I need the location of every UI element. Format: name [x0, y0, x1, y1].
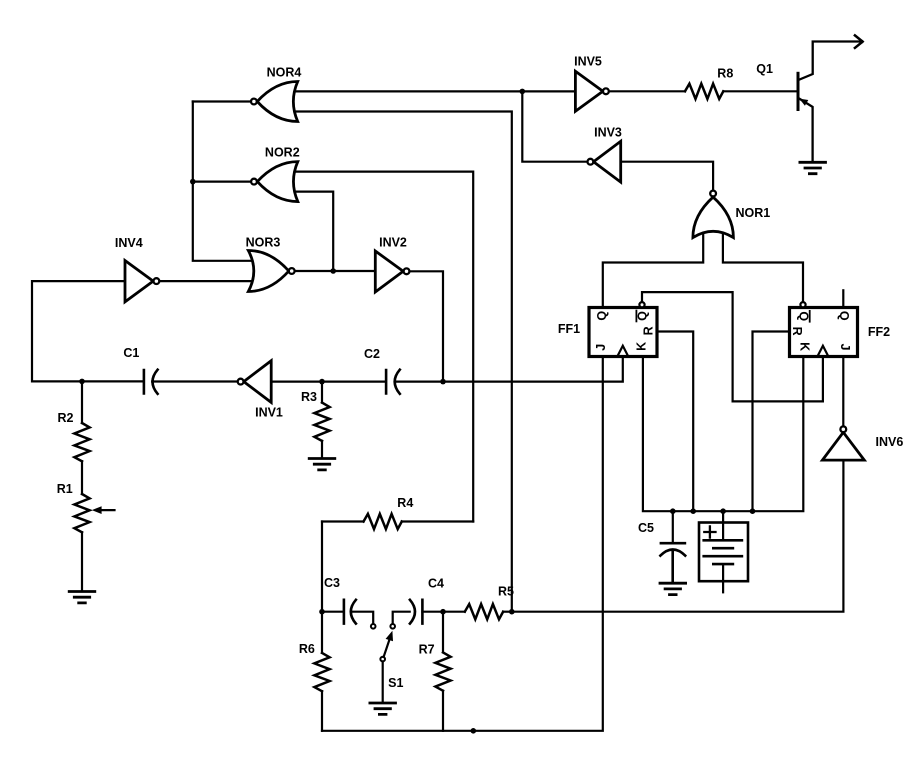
- junction node bus FF1 R: [690, 508, 696, 514]
- inverter INV6: [822, 432, 864, 460]
- wire INV4 output to NOR3 input 2: [159, 280, 252, 282]
- wire INV3 output up to node B: [522, 91, 587, 161]
- wire INV1 to C2: [271, 381, 385, 383]
- label INV6: [876, 435, 904, 449]
- junction node C4 right: [440, 609, 446, 615]
- junction node bus FF2 R: [750, 508, 756, 514]
- wire R1 to ground: [81, 532, 83, 591]
- wire NOR2 output: [193, 181, 251, 183]
- INV2 output bubble: [404, 268, 410, 274]
- NOR gate NOR3: [248, 251, 288, 292]
- svg-text:INV2: INV2: [379, 236, 407, 250]
- FF2 pin label K: [797, 342, 811, 351]
- label NOR4: [267, 66, 302, 80]
- inverter INV5: [575, 71, 603, 111]
- switch S1 arm with arrow: [384, 631, 393, 657]
- wire C5 feed: [672, 511, 674, 542]
- potentiometer R1 wiper arrow: [92, 506, 115, 514]
- resistor R2: [74, 423, 89, 461]
- junction node bottom rail: [471, 728, 477, 734]
- wire C1 to INV1: [152, 380, 238, 382]
- wire R5 right stub: [503, 611, 512, 613]
- wire R6 to bottom rail: [321, 691, 323, 731]
- label NOR3: [246, 236, 281, 250]
- wire FF2 R to bus: [753, 332, 790, 512]
- label C3: [324, 576, 340, 590]
- svg-text:Q: Q: [837, 311, 851, 321]
- FF2 pin label R: [790, 327, 804, 336]
- capacitor C2: [386, 370, 400, 394]
- label NOR1: [736, 206, 771, 220]
- wire FF2 J to INV6 output: [842, 357, 844, 427]
- wire C3 node down to R6: [321, 612, 323, 653]
- wire INV5 output to R8: [609, 90, 685, 92]
- svg-text:R3: R3: [301, 390, 317, 404]
- svg-text:C4: C4: [428, 577, 444, 591]
- svg-text:R4: R4: [397, 496, 413, 510]
- label R3: [301, 390, 317, 404]
- label C5: [638, 521, 654, 535]
- junction node NOR2 output / left rail: [190, 179, 196, 185]
- FF2 pin label Qbar: [796, 311, 810, 322]
- junction node R3 top: [319, 379, 325, 385]
- NOR1 output bubble: [710, 191, 716, 197]
- NOR4 output bubble: [251, 99, 257, 105]
- switch S1 pole contact: [380, 657, 385, 662]
- wire left rail to NOR3 input 1: [193, 102, 253, 261]
- NOR3 output bubble: [289, 268, 295, 274]
- NOR gate NOR4: [257, 82, 298, 122]
- battery bottom stub: [722, 564, 724, 592]
- wire FF1 K / reset bus / FF2 K: [643, 357, 803, 512]
- wire INV4 input left loop: [32, 281, 143, 381]
- label R1: [57, 482, 73, 496]
- svg-text:C3: C3: [324, 576, 340, 590]
- svg-text:C1: C1: [123, 346, 139, 360]
- switch S1 throw contact 2: [390, 624, 395, 629]
- resistor R1 potentiometer: [74, 494, 89, 532]
- battery plus sign: [704, 526, 715, 537]
- junction node bus battery: [720, 508, 726, 514]
- svg-text:R7: R7: [419, 642, 435, 656]
- label C4: [428, 577, 444, 591]
- svg-text:Q: Q: [635, 311, 649, 321]
- svg-text:FF1: FF1: [558, 322, 580, 336]
- capacitor C4: [410, 600, 423, 624]
- flip-flop FF2 box: [790, 308, 858, 357]
- wire R7 to bottom rail: [442, 691, 444, 731]
- label C2: [364, 347, 380, 361]
- svg-text:Q1: Q1: [756, 62, 773, 76]
- label C1: [123, 346, 139, 360]
- FF1 clock triangle: [617, 346, 628, 357]
- svg-text:K: K: [635, 342, 649, 351]
- FF1 pin label Q: [595, 311, 609, 321]
- wire R2 node down: [81, 381, 83, 423]
- label INV2: [379, 236, 407, 250]
- ground of C5: [660, 583, 686, 594]
- resistor R5: [465, 604, 503, 619]
- wire NOR2 input 1 to R4 right end: [294, 172, 474, 522]
- junction node C2 right: [440, 379, 446, 385]
- wire C3 to switch throw 1: [352, 612, 373, 624]
- FF1 Qbar pin bubble: [639, 302, 644, 307]
- capacitor C3: [344, 600, 356, 624]
- flip-flop FF1 box: [589, 308, 657, 357]
- capacitor C1: [144, 370, 158, 394]
- INV3 output bubble: [588, 159, 594, 165]
- wire NOR3 output to INV2: [295, 270, 376, 272]
- label R4: [397, 496, 413, 510]
- junction node bus C5: [670, 508, 676, 514]
- svg-text:FF2: FF2: [868, 325, 890, 339]
- wire R3 node down: [321, 382, 323, 403]
- ground of R3: [309, 459, 335, 470]
- label FF2: [868, 325, 890, 339]
- inverter INV1: [244, 361, 272, 403]
- svg-text:R: R: [641, 326, 655, 335]
- wire R4 row: [322, 520, 473, 522]
- wire C2 node to FF1 clock: [395, 357, 623, 382]
- resistor R7: [435, 652, 450, 690]
- NOR2 output bubble: [251, 179, 257, 185]
- label R2: [58, 411, 74, 425]
- ground of R1: [69, 592, 95, 603]
- wire C3 node right: [322, 611, 344, 613]
- label FF1: [558, 322, 580, 336]
- wire FF2 Q stub: [842, 290, 844, 307]
- label NOR2: [265, 146, 300, 160]
- resistor R8: [685, 84, 723, 99]
- resistor R3: [314, 403, 329, 441]
- label Q1: [756, 62, 773, 76]
- wire NOR1 input 2 to FF2 Qbar: [723, 233, 803, 302]
- junction node R2 top: [79, 379, 85, 385]
- ground of S1: [370, 703, 396, 714]
- wire C4 to R5: [422, 611, 464, 613]
- transistor Q1: [798, 35, 863, 161]
- inverter INV4: [125, 261, 153, 302]
- wire FF1 R to bus: [657, 332, 693, 512]
- inverter INV3: [594, 141, 621, 182]
- switch S1 throw contact 1: [371, 624, 376, 629]
- NOR gate NOR1: [693, 197, 734, 238]
- FF2 pin label Q: [837, 311, 851, 321]
- wire C4 node down to R7: [442, 612, 444, 653]
- FF1 pin label Qbar: [635, 311, 649, 322]
- svg-text:R5: R5: [498, 585, 514, 599]
- INV6 output bubble: [840, 426, 846, 432]
- capacitor C5: [660, 543, 685, 582]
- wire FF1 J to bottom rail: [322, 357, 603, 731]
- FF1 pin label J: [594, 344, 608, 351]
- wire R4 left column: [321, 522, 323, 612]
- wire INV2 output down to C2 node: [409, 271, 443, 381]
- FF2 Qbar pin bubble: [800, 302, 805, 307]
- wire NOR4 output to left rail: [193, 100, 251, 102]
- resistor R6: [314, 653, 329, 691]
- wire S1 common to ground: [382, 661, 384, 702]
- wire battery feed: [722, 511, 724, 540]
- label R5: [498, 585, 514, 599]
- wire INV3 input to NOR1 output: [621, 162, 713, 191]
- wire NOR3 output node to NOR2 input 2: [294, 192, 334, 271]
- svg-text:INV6: INV6: [876, 435, 904, 449]
- svg-text:C5: C5: [638, 521, 654, 535]
- label INV4: [115, 236, 143, 250]
- FF2 pin label J: [838, 344, 852, 351]
- NOR gate NOR2: [257, 162, 298, 202]
- svg-text:Q: Q: [796, 311, 810, 321]
- INV5 output bubble: [603, 88, 609, 94]
- wire switch throw 2 to C4: [393, 612, 410, 624]
- svg-text:NOR3: NOR3: [246, 236, 281, 250]
- junction node B INV5 input: [520, 89, 526, 95]
- label R7: [419, 642, 435, 656]
- svg-text:K: K: [797, 342, 811, 351]
- junction node NOR3 output: [330, 268, 336, 274]
- svg-text:C2: C2: [364, 347, 380, 361]
- svg-text:INV5: INV5: [574, 55, 602, 69]
- svg-text:J: J: [594, 344, 608, 351]
- svg-text:NOR1: NOR1: [736, 206, 771, 220]
- FF2 clock triangle: [817, 346, 828, 357]
- svg-text:INV1: INV1: [255, 406, 283, 420]
- label S1: [388, 676, 403, 690]
- label R6: [299, 642, 315, 656]
- wire NOR4 input 2 down to R5 right node: [294, 112, 512, 612]
- junction node C3 left: [319, 609, 325, 615]
- wire R3 to ground: [321, 441, 323, 458]
- svg-text:INV4: INV4: [115, 236, 143, 250]
- svg-text:J: J: [838, 344, 852, 351]
- svg-text:R1: R1: [57, 482, 73, 496]
- svg-text:NOR4: NOR4: [267, 66, 302, 80]
- svg-text:R2: R2: [58, 411, 74, 425]
- battery B1 box: [699, 523, 748, 582]
- FF1 pin label R: [641, 326, 655, 335]
- svg-text:INV3: INV3: [594, 125, 622, 139]
- wire R2 to R1: [81, 461, 83, 494]
- wire FF1 Qbar to FF2 clock: [642, 292, 823, 401]
- svg-text:NOR2: NOR2: [265, 146, 300, 160]
- label INV5: [574, 55, 602, 69]
- wire R8 to Q1 base: [723, 90, 796, 92]
- label INV1: [255, 406, 283, 420]
- svg-text:Q: Q: [595, 311, 609, 321]
- INV4 output bubble: [154, 278, 160, 284]
- label INV3: [594, 125, 622, 139]
- label R8: [717, 66, 733, 80]
- INV1 output bubble: [238, 379, 244, 385]
- wire R5 node to INV6 input: [512, 460, 843, 612]
- ground of Q1 emitter: [800, 162, 826, 173]
- svg-text:R: R: [790, 327, 804, 336]
- FF1 pin label K: [635, 342, 649, 351]
- svg-text:R8: R8: [717, 66, 733, 80]
- svg-text:S1: S1: [388, 676, 403, 690]
- inverter INV2: [375, 251, 403, 292]
- junction node R5 right: [509, 609, 515, 615]
- wire NOR4 input 1 to INV5: [294, 90, 576, 92]
- resistor R4: [364, 514, 402, 529]
- svg-text:R6: R6: [299, 642, 315, 656]
- wire NOR1 input 1 to FF1 Q: [603, 233, 703, 308]
- battery cell plates: [704, 540, 742, 564]
